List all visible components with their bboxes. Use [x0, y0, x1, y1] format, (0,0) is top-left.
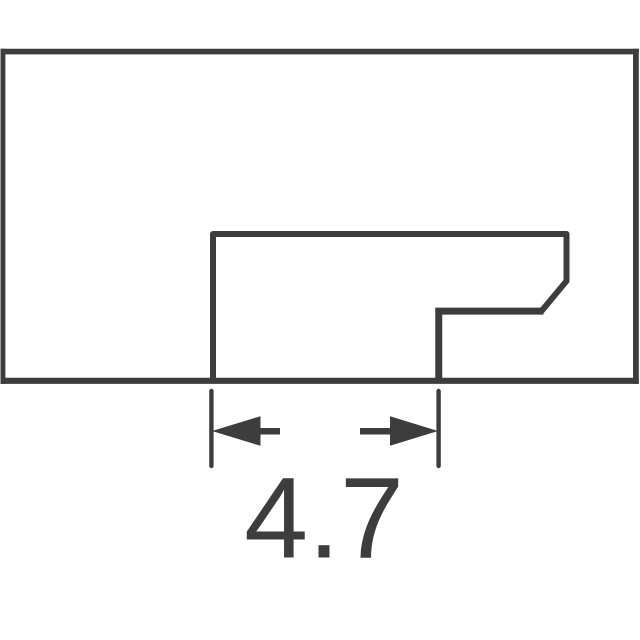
- component body outline: left edge: [1, 49, 6, 384]
- component body outline: right edge: [633, 49, 639, 384]
- left extension line: [209, 391, 213, 466]
- left dimension arrow: [212, 416, 261, 446]
- right dimension arrow: [390, 416, 438, 446]
- svg-text:4.7: 4.7: [244, 455, 404, 583]
- terminal profile step outline: [213, 234, 567, 379]
- terminal profile step foot: [439, 311, 544, 378]
- component body outline: bottom edge: [1, 378, 639, 384]
- right extension line: [436, 391, 440, 466]
- component body outline: top edge: [1, 49, 639, 55]
